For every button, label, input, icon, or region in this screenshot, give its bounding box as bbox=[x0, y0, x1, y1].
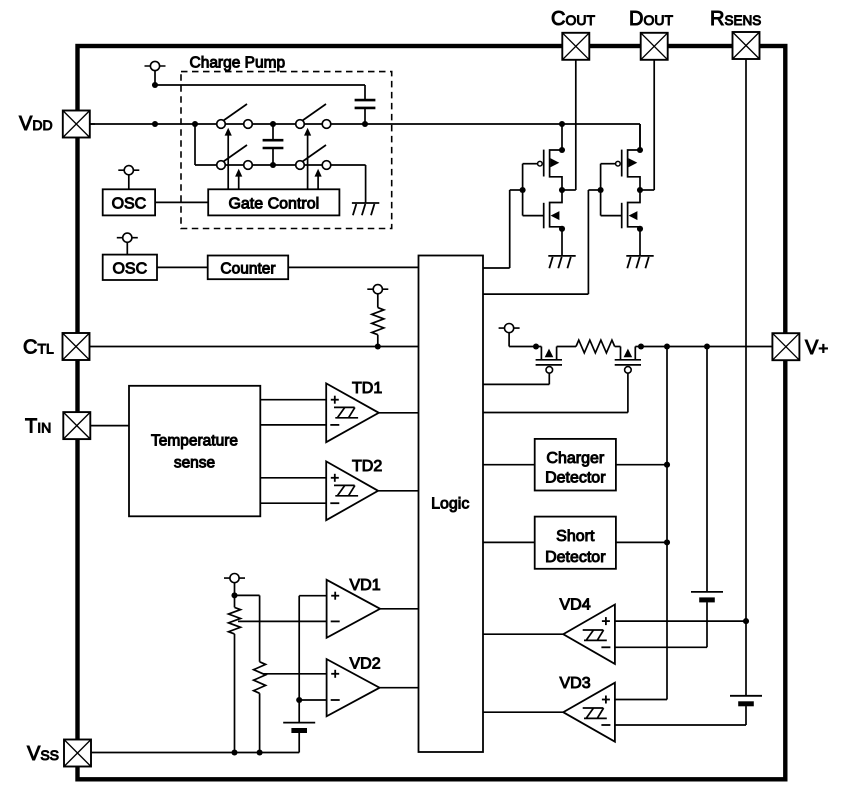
svg-text:Charge Pump: Charge Pump bbox=[190, 55, 286, 72]
svg-text:OSC: OSC bbox=[112, 195, 147, 212]
svg-text:TD1: TD1 bbox=[352, 380, 382, 397]
svg-text:Temperature: Temperature bbox=[151, 433, 238, 450]
svg-text:VDD: VDD bbox=[19, 113, 53, 135]
svg-text:Detector: Detector bbox=[545, 469, 606, 486]
svg-text:V+: V+ bbox=[805, 337, 828, 359]
svg-text:VD4: VD4 bbox=[560, 597, 591, 614]
svg-text:sense: sense bbox=[174, 455, 215, 472]
svg-text:Gate Control: Gate Control bbox=[228, 195, 319, 212]
svg-text:Detector: Detector bbox=[545, 549, 606, 566]
svg-text:TD2: TD2 bbox=[352, 458, 382, 475]
svg-text:COUT: COUT bbox=[551, 8, 595, 30]
svg-text:OSC: OSC bbox=[112, 260, 147, 277]
svg-text:DOUT: DOUT bbox=[629, 8, 673, 30]
svg-text:VD2: VD2 bbox=[350, 656, 381, 673]
svg-text:Charger: Charger bbox=[546, 450, 604, 467]
svg-text:TIN: TIN bbox=[25, 416, 51, 438]
svg-text:VD1: VD1 bbox=[350, 577, 381, 594]
svg-text:Counter: Counter bbox=[220, 260, 275, 277]
svg-text:VD3: VD3 bbox=[560, 675, 591, 692]
svg-text:VSS: VSS bbox=[27, 743, 59, 765]
svg-text:Short: Short bbox=[556, 528, 595, 545]
svg-text:Logic: Logic bbox=[431, 495, 469, 512]
svg-text:CTL: CTL bbox=[23, 337, 54, 359]
